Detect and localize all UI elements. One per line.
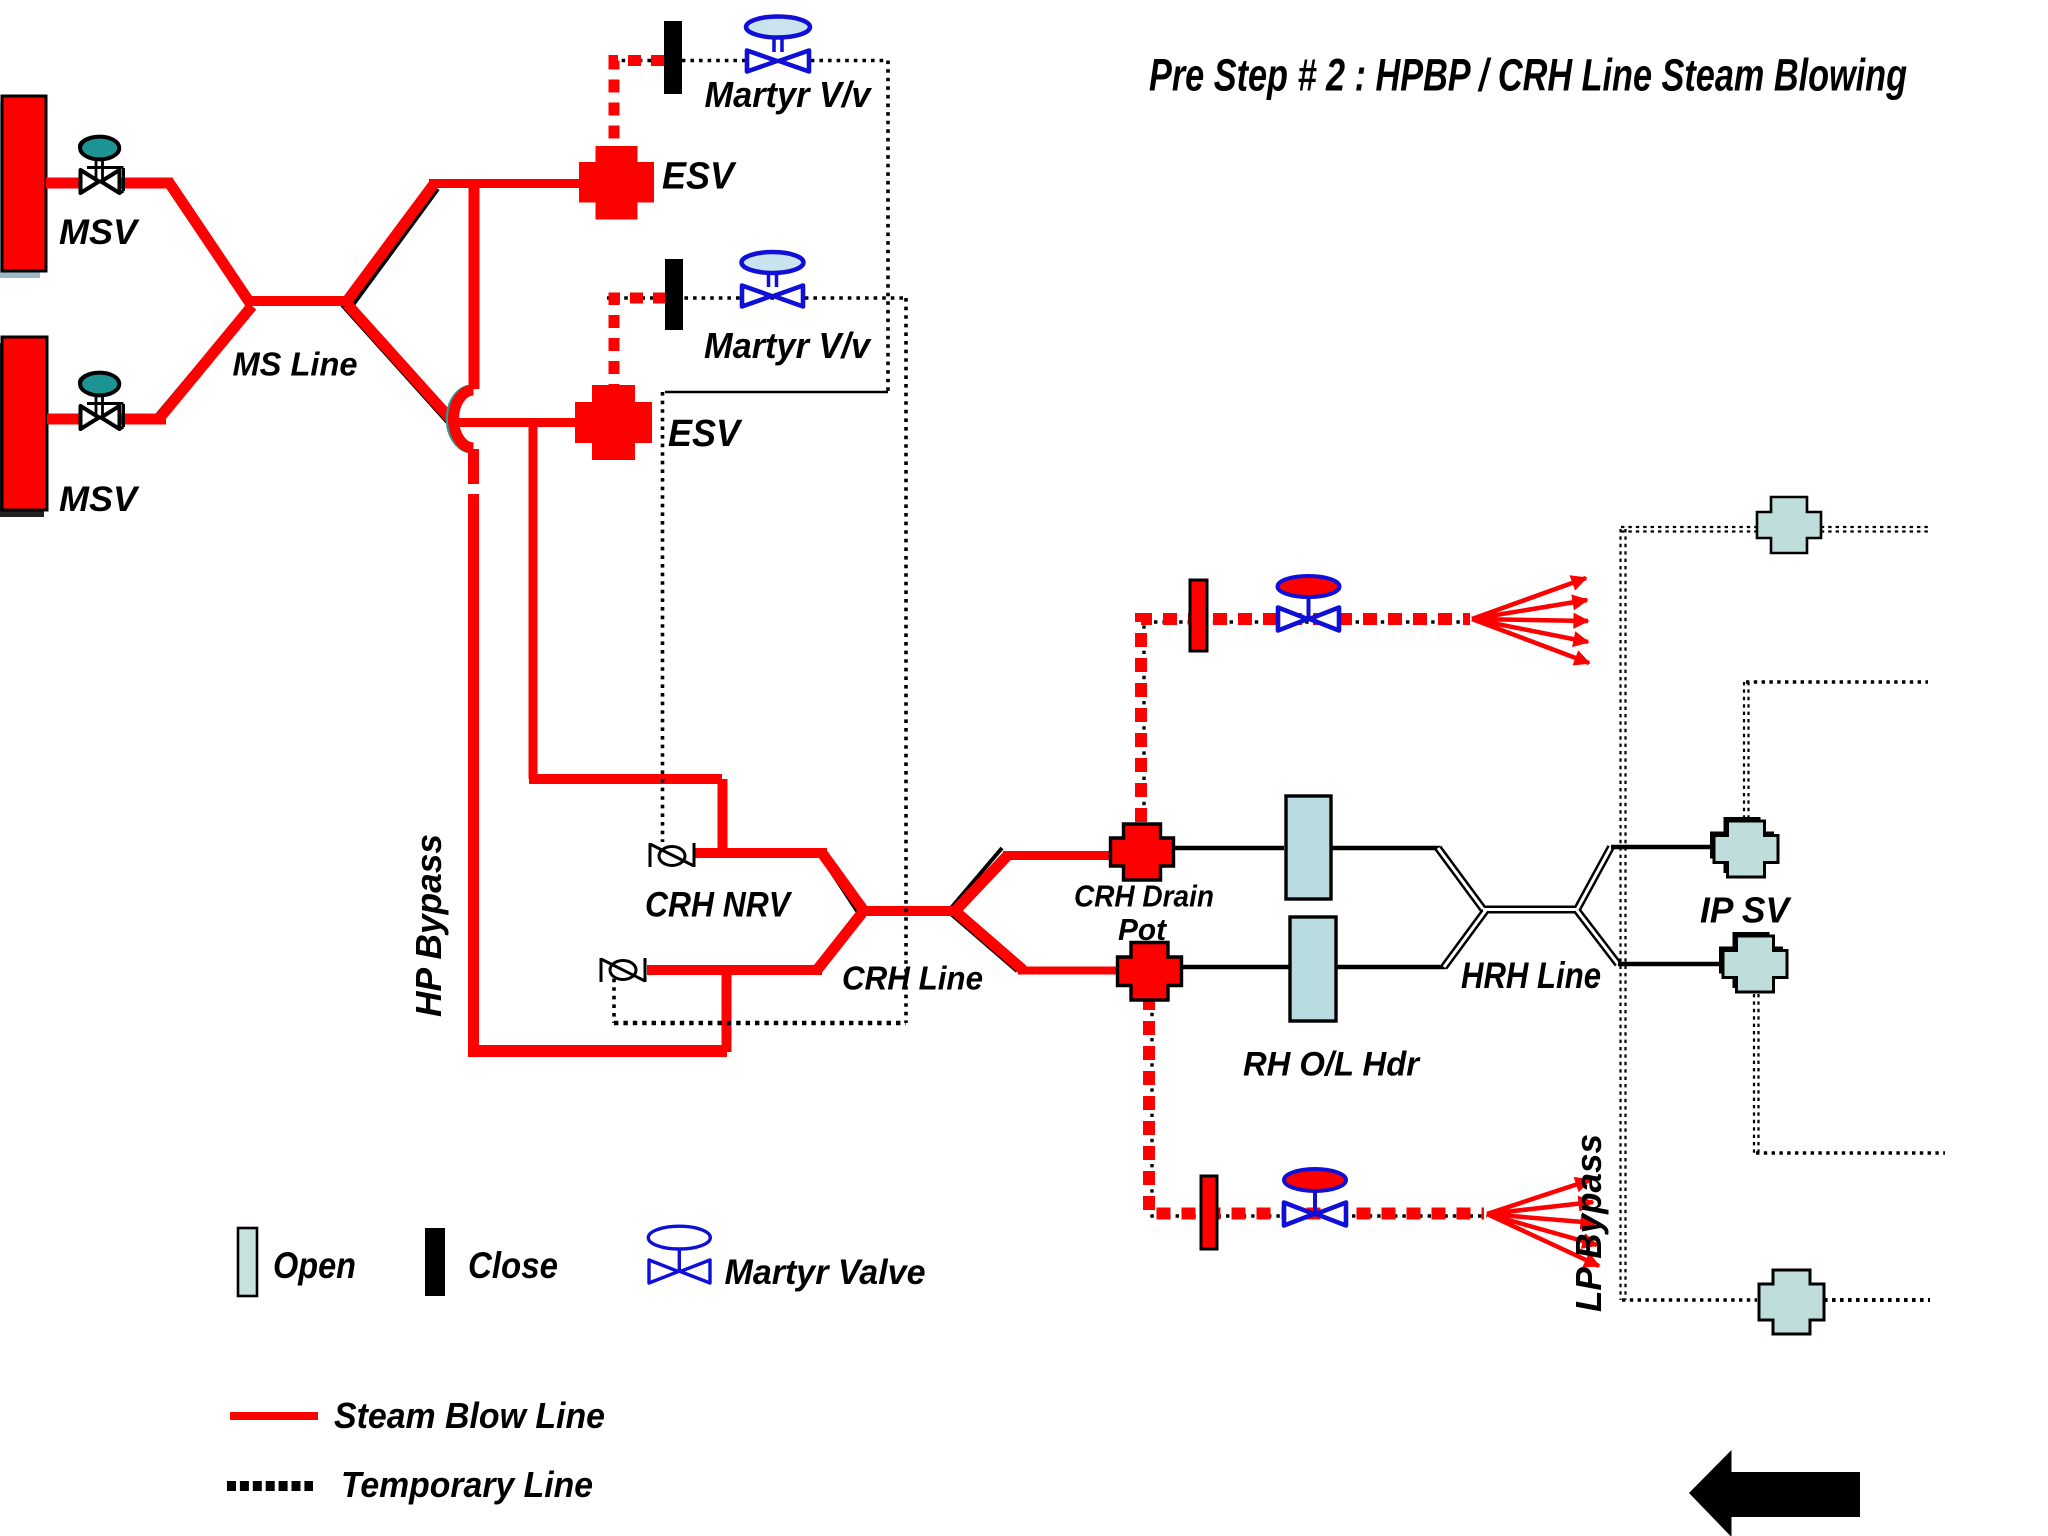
svg-text:ESV: ESV — [662, 156, 737, 198]
shadow of CRH split lower diagonal — [951, 914, 1017, 971]
wire HP bypass vertical upper — [469, 183, 480, 389]
shadow of MSV2 diagonal — [152, 309, 246, 421]
HRH line right upper — [1611, 845, 1712, 850]
wire MSV1 stub left — [46, 178, 80, 189]
teal crossing marker — [448, 387, 472, 451]
dotted bottom run after cross — [1824, 1298, 1930, 1302]
wire HP bypass bottom return — [468, 1045, 727, 1057]
legend temporary line swatch — [227, 1481, 313, 1491]
wire upper NRV diagonal — [822, 853, 864, 911]
boiler box MSV1 — [2, 96, 46, 271]
martyr valve on drain1 (red cap) — [1278, 576, 1340, 631]
RH O/L header rect 2 — [1290, 917, 1336, 1021]
svg-text:HRH Line: HRH Line — [1461, 955, 1601, 996]
red dashed drain1 — [1141, 619, 1470, 822]
wire HP bypass vertical segment — [468, 449, 479, 484]
blow-out fan 2 — [1487, 1180, 1599, 1266]
martyr valve 2 (blue, pale ellipse) — [742, 252, 804, 307]
dotted lower right horizontal — [1756, 1151, 1945, 1155]
svg-text:RH O/L Hdr: RH O/L Hdr — [1243, 1046, 1421, 1084]
red dashed drain2 — [1149, 996, 1484, 1214]
wire to CRH drain pot 2 — [1018, 967, 1122, 975]
svg-text:LP Bypass: LP Bypass — [1568, 1134, 1609, 1312]
big black arrow — [1689, 1450, 1860, 1536]
IP SV cross 2 shadow — [1719, 932, 1783, 988]
wire lower NRV line — [647, 965, 822, 975]
wire MS line horizontal — [246, 296, 351, 306]
shadow of MSV1 diagonal — [176, 187, 253, 305]
svg-text:MS Line: MS Line — [233, 346, 358, 383]
RH O/L header rect 1 — [1286, 796, 1331, 899]
shadow of MS lower diagonal — [342, 305, 449, 424]
header cross top right — [1757, 497, 1821, 553]
HRH line X (double lines) — [1438, 847, 1618, 967]
dotted right main riser (double) — [1619, 529, 1621, 1300]
svg-text:Martyr V/v: Martyr V/v — [704, 325, 872, 366]
wire lower NRV diagonal — [817, 913, 862, 970]
wire HP bypass vertical long — [468, 494, 479, 1046]
svg-text:Close: Close — [468, 1245, 558, 1286]
dotted HRH header top (double) — [1621, 526, 1930, 528]
temporary line martyr1 dotted — [613, 59, 888, 63]
wire MSV1 stub right — [120, 178, 173, 189]
HRH line left lower — [1182, 965, 1446, 970]
wire riser to lower NRV — [722, 970, 732, 1052]
NRV 2 — [601, 958, 645, 982]
legend close bar — [425, 1228, 445, 1296]
svg-text:Steam Blow Line: Steam Blow Line — [334, 1395, 605, 1436]
temporary drop ESV box dotted — [661, 392, 665, 842]
close bar 2 — [665, 259, 683, 330]
wire MS upper diagonal — [347, 184, 434, 301]
shadow of CRH upper diagonal — [821, 856, 859, 914]
shadow of CRH lower diagonal — [816, 918, 859, 973]
svg-text:MSV: MSV — [59, 213, 140, 252]
dotted IP SV upper L horizontal — [1746, 680, 1928, 684]
wire CRH split upper diagonal — [955, 855, 1008, 911]
CRH drain pot cross 2 — [1118, 943, 1182, 1001]
legend martyr valve — [648, 1226, 710, 1283]
HRH line left upper — [1174, 846, 1440, 851]
svg-text:CRH Drain: CRH Drain — [1074, 879, 1214, 914]
wire upper NRV line — [694, 848, 827, 858]
blow-out fan 1 — [1472, 578, 1589, 663]
wire MSV1 diagonal — [168, 181, 250, 303]
shadow of MS upper diagonal — [353, 189, 438, 305]
wire to ESV1 — [429, 179, 580, 188]
valve MSV2 (teal globe) — [78, 371, 124, 429]
wire CRH feed horizontal — [529, 774, 722, 784]
close bar 1 — [664, 21, 682, 94]
wire MSV2 stub right — [120, 414, 166, 425]
svg-text:IP SV: IP SV — [1700, 890, 1792, 931]
boiler box shadow 2 — [0, 343, 44, 517]
temporary line drain1 dotted — [1144, 622, 1473, 822]
svg-text:Martyr V/v: Martyr V/v — [705, 74, 873, 115]
legend open bar — [238, 1228, 257, 1296]
wire MSV2 stub left — [47, 414, 80, 425]
svg-text:CRH Line: CRH Line — [842, 960, 983, 997]
return line from martyr1 (solid) — [665, 391, 888, 394]
dotted IP SV upper L vertical (double) — [1743, 682, 1745, 819]
temporary line martyr2 dotted — [607, 296, 906, 300]
wire CRH split lower diagonal — [955, 911, 1023, 970]
IP SV cross 2 — [1723, 936, 1787, 992]
martyr valve on drain2 (red cap) — [1284, 1169, 1346, 1226]
IP SV cross 1 — [1714, 821, 1778, 877]
boiler box shadow 1 — [0, 102, 40, 278]
svg-text:Martyr Valve: Martyr Valve — [725, 1253, 926, 1292]
wire to CRH drain pot 1 — [1003, 851, 1114, 860]
wire MSV2 diagonal — [160, 306, 252, 418]
temporary line drain2 dotted — [1152, 996, 1487, 1216]
dotted below IP SV 2 (double) — [1753, 994, 1755, 1153]
IP SV cross 1 shadow — [1710, 817, 1774, 873]
svg-text:HP Bypass: HP Bypass — [408, 834, 449, 1017]
svg-text:MSV: MSV — [59, 480, 140, 519]
legend steam blow line swatch — [230, 1412, 318, 1420]
wire to ESV2 — [450, 418, 578, 427]
wire CRH line horizontal — [859, 906, 959, 916]
ESV1 cross — [579, 146, 654, 220]
temporary loop bottom dotted — [614, 1021, 906, 1025]
boiler box MSV2 — [2, 337, 47, 510]
red dashed to martyr1 — [614, 61, 664, 151]
open bar (red) on drain1 temp line — [1190, 580, 1207, 651]
open bar (red) on drain2 temp line — [1201, 1176, 1217, 1249]
temporary line martyr1 dotted drop — [886, 61, 890, 393]
shadow of CRH split upper diagonal — [951, 848, 1002, 908]
svg-text:Pot: Pot — [1118, 912, 1168, 947]
svg-text:CRH NRV: CRH NRV — [645, 886, 792, 925]
HRH line right lower — [1618, 962, 1723, 967]
dotted bottom run to cross — [1622, 1298, 1757, 1302]
svg-text:Open: Open — [273, 1245, 356, 1286]
wire CRH feed drop — [718, 779, 728, 853]
wire CRH feed vertical — [529, 425, 538, 779]
svg-text:Temporary Line: Temporary Line — [341, 1464, 593, 1505]
valve MSV1 (teal globe) — [78, 135, 124, 193]
ESV2 cross — [575, 385, 652, 460]
temporary stub at lower NRV dotted — [612, 970, 616, 1023]
martyr valve 1 (blue, pale ellipse) — [746, 17, 810, 72]
svg-text:Pre Step # 2 : HPBP / CRH Line: Pre Step # 2 : HPBP / CRH Line Steam Blo… — [1149, 50, 1907, 101]
wire HP bypass hop arc — [454, 390, 474, 448]
svg-text:ESV: ESV — [668, 413, 743, 455]
header cross bottom right — [1759, 1270, 1824, 1334]
wire MS lower diagonal — [347, 304, 455, 424]
CRH drain pot cross 1 — [1111, 824, 1174, 880]
red dashed to martyr2 — [614, 298, 666, 385]
temporary line martyr2 dotted drop — [904, 298, 908, 1023]
NRV 1 — [650, 843, 694, 867]
